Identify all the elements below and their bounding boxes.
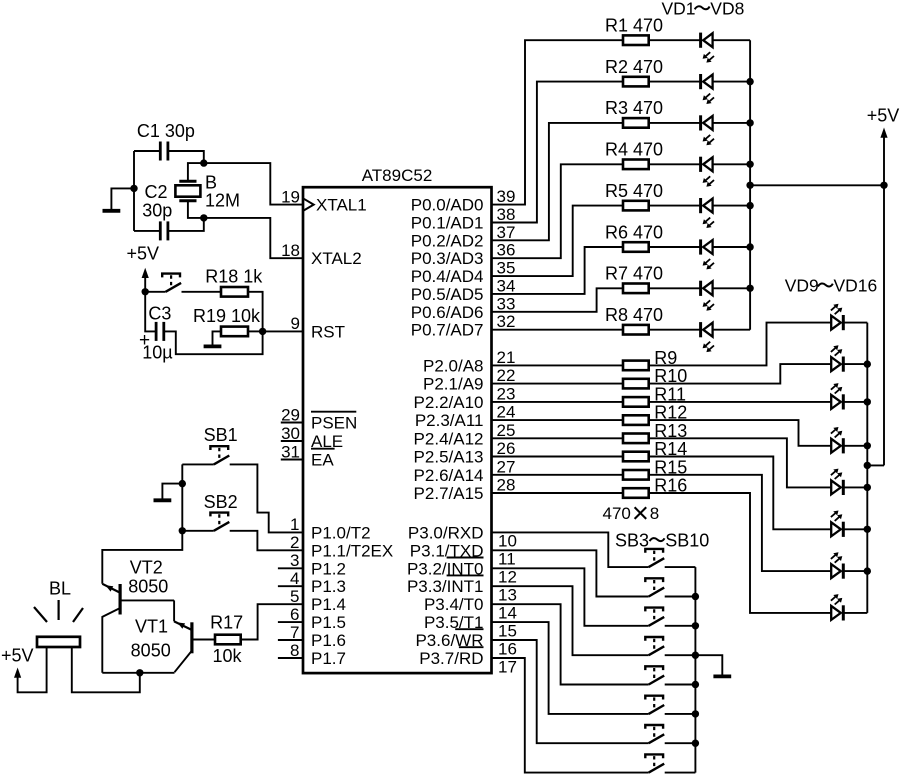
wire SB to ground (162, 484, 182, 499)
svg-text:6: 6 (290, 605, 299, 624)
resistor R8 (623, 325, 649, 335)
wire switch to R18 (182, 291, 222, 293)
svg-text:P0.4/AD4: P0.4/AD4 (411, 267, 484, 286)
pushbutton SB3 (645, 549, 664, 567)
LED VD13 (831, 469, 843, 495)
RD overbar (459, 646, 484, 648)
wire R13 to LED VD13 (649, 438, 832, 487)
ground crystal (103, 209, 121, 213)
wire VD9 to bus (843, 322, 867, 324)
wire pin 33 to R7 (492, 288, 624, 312)
svg-text:SB2: SB2 (204, 492, 238, 512)
resistor R7 (623, 284, 649, 294)
wire R11 to LED VD11 (649, 401, 832, 403)
wire VD13 to bus (843, 486, 867, 488)
svg-text:16: 16 (498, 639, 517, 658)
crystal B bottom lead (188, 201, 204, 218)
resistor R12 (623, 415, 649, 425)
wire R9 to LED VD9 (649, 323, 832, 366)
svg-text:R8 470: R8 470 (605, 305, 663, 325)
node SB bus dot 6 (692, 740, 699, 747)
transistor VT1 collector (175, 652, 192, 673)
+5V arrow right (880, 128, 887, 138)
node bus +5V tap dot (746, 182, 753, 189)
svg-text:R2 470: R2 470 (605, 57, 663, 77)
WR overbar (455, 628, 483, 630)
svg-text:P1.4: P1.4 (311, 595, 346, 614)
svg-text:P1.6: P1.6 (311, 631, 346, 650)
transistor VT1 bar (190, 622, 193, 653)
LED VD3 (701, 115, 714, 145)
svg-text:P0.0/AD0: P0.0/AD0 (411, 196, 484, 215)
resistor R17 (215, 635, 241, 645)
node SB bus dot 5 (692, 710, 699, 717)
svg-text:9: 9 (291, 314, 300, 333)
svg-text:VD16: VD16 (834, 276, 878, 296)
svg-text:17: 17 (498, 657, 517, 676)
wire crystal left vertical (133, 151, 135, 231)
wire pin 39 to R1 (492, 40, 624, 204)
node SB bus dot 1 (692, 593, 699, 600)
resistor R1 (623, 35, 649, 45)
wire R10 to LED VD10 (649, 364, 832, 384)
svg-text:10µ: 10µ (142, 342, 172, 362)
pin 6 stub wire (278, 621, 303, 623)
svg-text:P2.0/A8: P2.0/A8 (423, 356, 484, 375)
svg-text:12M: 12M (205, 191, 240, 211)
reset pushbutton (162, 274, 181, 292)
node bus dot VD4 (746, 161, 753, 168)
wire VT2 base to VT1 (173, 600, 175, 621)
svg-text:R7 470: R7 470 (605, 264, 663, 284)
wire pin 23 to R11 (492, 401, 624, 403)
LED VD8 (701, 322, 714, 352)
pushbutton SB9 (645, 725, 664, 743)
wire R18 to RST net (164, 292, 263, 354)
LED VD11 (831, 383, 843, 409)
resistor R3 (623, 118, 649, 128)
svg-text:13: 13 (498, 586, 517, 605)
crystal B top lead (188, 163, 204, 181)
svg-text:P1.3: P1.3 (311, 577, 346, 596)
wire C2 left (134, 230, 160, 232)
svg-text:P0.3/AD3: P0.3/AD3 (411, 249, 484, 268)
svg-text:R3 470: R3 470 (605, 98, 663, 118)
label VD9~VD16 (785, 276, 878, 296)
wire BL left leg (18, 647, 47, 692)
svg-text:BL: BL (49, 579, 71, 599)
wire SB7 to bus (665, 684, 696, 686)
svg-text:23: 23 (497, 384, 516, 403)
node RST junction dot (259, 328, 266, 335)
node XTAL1 junction dot (200, 159, 207, 166)
svg-text:VD8: VD8 (710, 0, 744, 19)
XTAL1 clock chevron (303, 198, 314, 211)
wire VD15 to bus (843, 570, 867, 572)
svg-text:15: 15 (498, 621, 517, 640)
svg-text:EA: EA (311, 451, 334, 470)
LED VD14 (831, 511, 843, 537)
wire XTAL2 to pin 18 (204, 218, 303, 258)
LED VD2 (701, 74, 714, 104)
wire R16 to LED VD16 (649, 493, 832, 613)
svg-text:P2.4/A12: P2.4/A12 (414, 429, 484, 448)
wire +5V to VD bus (867, 464, 884, 466)
svg-text:+5V: +5V (867, 106, 900, 126)
resistor R15 (623, 470, 649, 480)
LED VD9 (831, 304, 843, 330)
LED VD16 (831, 594, 843, 620)
transistor VT2 base wire (122, 599, 175, 601)
svg-text:SB3: SB3 (615, 530, 649, 550)
node collector rail dot (136, 669, 143, 676)
pushbutton SB5 (645, 608, 664, 626)
wire LED anode bus (749, 40, 751, 330)
wire pin 13 to SB6 (492, 586, 649, 655)
pin 7 stub wire (278, 639, 303, 641)
wire RST to pin 9 (263, 330, 303, 332)
svg-text:P1.2: P1.2 (311, 559, 346, 578)
label SB3~SB10 (615, 530, 709, 550)
node bus dot VD2 (746, 78, 753, 85)
svg-text:R5 470: R5 470 (605, 181, 663, 201)
ground SB bus (713, 675, 731, 679)
svg-text:38: 38 (497, 205, 516, 224)
resistor R10 (623, 379, 649, 389)
svg-text:P1.0/T2: P1.0/T2 (311, 523, 371, 542)
svg-text:30p: 30p (142, 201, 172, 221)
svg-text:SB10: SB10 (665, 530, 709, 550)
wire pin 36 to R4 (492, 164, 624, 258)
svg-text:1: 1 (290, 515, 299, 534)
wire pin 11 to SB4 (492, 550, 649, 596)
svg-text:P0.1/AD1: P0.1/AD1 (411, 214, 484, 233)
svg-text:C3: C3 (148, 304, 171, 324)
svg-text:P0.2/AD2: P0.2/AD2 (411, 231, 484, 250)
BL ray right (73, 608, 83, 622)
svg-text:30: 30 (281, 424, 300, 443)
svg-text:P2.7/A15: P2.7/A15 (414, 484, 484, 503)
PSEN overbar (311, 411, 356, 413)
svg-text:R19 10k: R19 10k (193, 306, 261, 326)
svg-text:VD1: VD1 (662, 0, 696, 19)
crystal B body (175, 185, 200, 196)
wire R12 to LED VD12 (649, 420, 832, 446)
wire SB1 left (182, 463, 214, 465)
svg-text:XTAL1: XTAL1 (316, 196, 367, 215)
BL ray left (34, 607, 47, 622)
pin 3 stub wire (278, 567, 303, 569)
svg-text:XTAL2: XTAL2 (311, 249, 362, 268)
node bus dot VD10 (864, 360, 871, 367)
svg-text:36: 36 (497, 241, 516, 260)
wire SB1 to pin 1 (230, 464, 303, 532)
wire SB5 to bus (665, 625, 696, 627)
wire pin 28 to R16 (492, 492, 624, 494)
LED VD4 (701, 157, 714, 187)
LED VD5 (701, 198, 714, 228)
svg-text:R17: R17 (210, 613, 243, 633)
svg-text:+5V: +5V (1, 646, 34, 666)
wire R17 to pin 5 (241, 604, 303, 639)
wire R14 to LED VD14 (649, 457, 832, 530)
IC U1 AT89C52 body (303, 187, 492, 673)
svg-text:8050: 8050 (131, 640, 171, 660)
svg-text:P3.4/T0: P3.4/T0 (424, 595, 484, 614)
svg-text:3: 3 (290, 551, 299, 570)
pin 8 stub wire (278, 657, 303, 659)
resistor R4 (623, 160, 649, 170)
svg-text:7: 7 (290, 623, 299, 642)
transistor VT1 emitter (174, 621, 191, 629)
wire pin 32 to R8 (492, 329, 624, 331)
wire R4 to LED VD4 (649, 163, 701, 165)
svg-text:VT1: VT1 (135, 616, 168, 636)
wire pin 15 to SB8 (492, 622, 649, 714)
svg-text:PSEN: PSEN (311, 414, 357, 433)
pushbutton SB1 (210, 446, 229, 464)
node bus2 +5V tap dot (864, 462, 871, 469)
wire R5 to LED VD5 (649, 205, 701, 207)
svg-text:P3.3/INT1: P3.3/INT1 (407, 577, 484, 596)
node SB bus dot 4 (692, 681, 699, 688)
svg-text:18: 18 (281, 241, 300, 260)
svg-text:P1.7: P1.7 (311, 649, 346, 668)
wire C2 right to corner (168, 218, 204, 231)
pushbutton SB8 (645, 696, 664, 714)
wire R8 to LED VD8 (649, 329, 701, 331)
wire +5V down (144, 276, 146, 292)
wire VD9-16 bus (866, 323, 868, 613)
BL ray middle (57, 600, 59, 620)
transistor VT1 base wire (193, 639, 215, 641)
+5V arrow reset (142, 268, 149, 278)
svg-text:R18 1k: R18 1k (205, 267, 263, 287)
+5V arrow BL (14, 668, 21, 678)
svg-text:VD9: VD9 (785, 276, 819, 296)
node bus dot VD3 (746, 119, 753, 126)
svg-text:P0.7/AD7: P0.7/AD7 (411, 321, 484, 340)
svg-text:10k: 10k (212, 646, 242, 666)
capacitor C2 plates (159, 221, 162, 240)
svg-text:P2.3/A11: P2.3/A11 (415, 411, 484, 430)
label VD1~VD8 (662, 0, 745, 19)
node bus dot VD14 (864, 526, 871, 533)
svg-text:11: 11 (498, 550, 516, 569)
svg-text:P2.6/A14: P2.6/A14 (414, 466, 484, 485)
svg-text:22: 22 (497, 366, 516, 385)
wire pin 35 to R5 (492, 206, 624, 277)
svg-text:P0.6/AD6: P0.6/AD6 (411, 303, 484, 322)
wire pin 27 to R15 (492, 474, 624, 476)
crystal B bottom plate (179, 199, 196, 202)
wire C3 left (145, 292, 156, 332)
svg-text:P1.1/T2EX: P1.1/T2EX (311, 541, 393, 560)
svg-text:SB1: SB1 (204, 425, 238, 445)
wire R7 to LED VD7 (649, 287, 701, 289)
wire VD2 to bus (713, 81, 751, 83)
wire pin 14 to SB7 (492, 604, 649, 684)
wire R1 to LED VD1 (649, 39, 701, 41)
wire pin 38 to R2 (492, 82, 624, 223)
LED VD6 (701, 239, 714, 269)
VT2 emitter arrow (105, 585, 113, 591)
wire pin 26 to R14 (492, 456, 624, 458)
wire collector rail (102, 672, 174, 674)
svg-text:P1.5: P1.5 (311, 613, 346, 632)
INT1 overbar (447, 574, 484, 576)
svg-text:28: 28 (497, 476, 516, 495)
wire R6 to LED VD6 (649, 246, 701, 248)
svg-text:24: 24 (497, 403, 516, 422)
svg-text:25: 25 (497, 421, 516, 440)
wire VD5 to bus (713, 205, 751, 207)
node bus dot VD12 (864, 442, 871, 449)
svg-text:4: 4 (290, 569, 299, 588)
wire SB2 left (182, 530, 214, 532)
svg-text:32: 32 (497, 312, 516, 331)
resistor R18 (221, 287, 248, 297)
wire R2 to LED VD2 (649, 81, 701, 83)
svg-text:29: 29 (281, 405, 300, 424)
LED VD12 (831, 427, 843, 453)
wire VD11 to bus (843, 401, 867, 403)
wire +5V vertical (883, 136, 885, 466)
resistor R19 (221, 327, 248, 337)
svg-text:+5V: +5V (127, 244, 160, 264)
pushbutton SB4 (645, 578, 664, 596)
svg-text:2: 2 (290, 533, 299, 552)
LED VD15 (831, 552, 843, 578)
resistor R11 (623, 397, 649, 407)
wire SB6 to bus (665, 654, 696, 656)
wire R19 left to ground (213, 331, 222, 344)
wire pin 24 to R12 (492, 419, 624, 421)
svg-text:8050: 8050 (128, 577, 168, 597)
wire pin 21 to R9 (492, 364, 624, 366)
pin 31 stub wire (281, 459, 303, 461)
pin 4 stub wire (278, 585, 303, 587)
wire SB bus to ground (695, 655, 722, 674)
svg-text:14: 14 (498, 604, 517, 623)
node bus dot VD5 (746, 202, 753, 209)
resistor R9 (623, 361, 649, 371)
svg-text:AT89C52: AT89C52 (362, 166, 433, 185)
node bus dot VD11 (864, 398, 871, 405)
svg-text:12: 12 (498, 568, 517, 587)
LED VD1 (701, 33, 714, 63)
wire VD8 to bus (713, 329, 751, 331)
wire SB3 to bus (665, 566, 696, 568)
crystal B top plate (179, 180, 196, 183)
svg-text:RST: RST (311, 322, 345, 341)
wire C1 right to corner (168, 151, 204, 163)
svg-text:27: 27 (497, 457, 516, 476)
pushbutton SB6 (645, 637, 664, 655)
node ground tap dot (130, 185, 137, 192)
svg-text:P3.0/RXD: P3.0/RXD (408, 523, 484, 542)
wire pin 17 to SB10 (492, 658, 649, 773)
node SB bus dot 2 (692, 622, 699, 629)
wire C1 left (134, 150, 160, 152)
svg-text:19: 19 (281, 187, 300, 206)
svg-text:31: 31 (281, 442, 300, 461)
node bus dot VD15 (864, 567, 871, 574)
resistor R16 (623, 488, 649, 498)
transistor VT2 bar (118, 584, 121, 615)
svg-text:P2.5/A13: P2.5/A13 (414, 448, 484, 467)
LED VD7 (701, 281, 714, 311)
wire R15 to LED VD15 (649, 475, 832, 571)
svg-text:R6 470: R6 470 (605, 222, 663, 242)
svg-text:5: 5 (290, 587, 299, 606)
svg-text:P2.1/A9: P2.1/A9 (423, 375, 484, 394)
wire VD6 to bus (713, 246, 751, 248)
wire pin 10 to SB3 (492, 532, 649, 567)
wire VD16 to bus (843, 612, 867, 614)
wire to ground (111, 188, 134, 209)
wire R3 to LED VD3 (649, 122, 701, 124)
svg-text:39: 39 (497, 187, 516, 206)
VT1 emitter arrow (177, 622, 185, 628)
svg-text:R4 470: R4 470 (605, 140, 663, 160)
wire VD12 to bus (843, 445, 867, 447)
node SB bus dot 3 (692, 652, 699, 659)
svg-text:P3.7/RD: P3.7/RD (419, 649, 483, 668)
svg-text:470: 470 (603, 504, 631, 523)
node SB2 dot (179, 527, 186, 534)
svg-text:C2: C2 (144, 182, 167, 202)
svg-text:26: 26 (497, 439, 516, 458)
wire SB ground vertical (102, 464, 182, 583)
LED VD10 (831, 345, 843, 371)
wire pin 12 to SB5 (492, 568, 649, 626)
wire SB9 to bus (665, 742, 696, 744)
wire SB10 to bus (665, 772, 696, 774)
pushbutton SB10 (645, 754, 664, 772)
transistor VT2 collector (102, 608, 119, 672)
wire pin 22 to R10 (492, 383, 624, 385)
svg-text:C1 30p: C1 30p (137, 121, 195, 141)
node bus dot VD7 (746, 285, 753, 292)
svg-text:R1 470: R1 470 (605, 16, 663, 36)
sounder BL body (37, 637, 80, 647)
pin 30 stub wire (281, 440, 303, 442)
svg-text:10: 10 (498, 532, 517, 551)
wire SB8 to bus (665, 713, 696, 715)
svg-text:33: 33 (497, 294, 516, 313)
node +5V junction dot (142, 288, 149, 295)
pushbutton SB2 (210, 513, 229, 531)
wire pin 25 to R13 (492, 437, 624, 439)
resistor R2 (623, 77, 649, 87)
node +5V line dot (880, 182, 887, 189)
wire XTAL1 to pin 19 (204, 163, 303, 205)
wire bus to +5V (750, 184, 884, 186)
svg-text:34: 34 (497, 276, 516, 295)
node bus dot VD6 (746, 243, 753, 250)
wire SB4 to bus (665, 596, 696, 598)
EA overbar (311, 448, 335, 450)
svg-text:35: 35 (497, 259, 516, 278)
node SB ground dot (179, 480, 186, 487)
svg-text:8: 8 (650, 504, 659, 523)
node XTAL2 junction dot (200, 214, 207, 221)
wire VD7 to bus (713, 287, 751, 289)
svg-text:8: 8 (290, 641, 299, 660)
wire VD3 to bus (713, 122, 751, 124)
ground SB (154, 498, 172, 502)
